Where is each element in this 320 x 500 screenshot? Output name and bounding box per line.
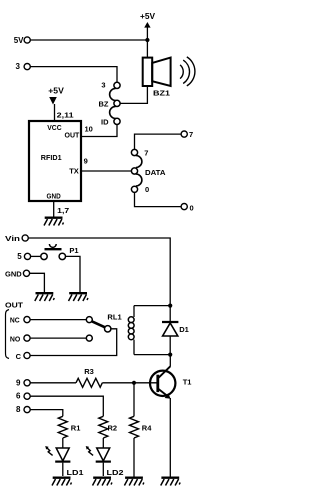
wire TX to DATA	[81, 170, 131, 172]
svg-text:VCC: VCC	[47, 123, 62, 132]
svg-text:10: 10	[85, 124, 93, 133]
terminal C	[16, 352, 30, 361]
wire coil bottom	[134, 354, 170, 356]
svg-text:D1: D1	[179, 325, 189, 334]
svg-text:LD2: LD2	[107, 468, 124, 477]
svg-text:7: 7	[144, 148, 148, 157]
svg-text:+5V: +5V	[48, 87, 64, 96]
terminal 5	[17, 252, 30, 261]
jumper contact 3	[101, 81, 120, 90]
svg-text:RFID1: RFID1	[41, 153, 62, 162]
svg-text:LD1: LD1	[67, 468, 84, 477]
wire 6 to R2	[30, 396, 103, 416]
svg-text:9: 9	[84, 157, 88, 166]
wire 9 to R3	[30, 382, 76, 384]
wire Vin to coil/diode	[28, 238, 170, 306]
svg-text:R3: R3	[84, 367, 94, 376]
wire coil top	[134, 305, 170, 307]
jumper arc DATA-0	[136, 174, 142, 186]
svg-text:C: C	[16, 352, 22, 361]
ground T1 emitter	[161, 478, 181, 486]
relay pivot	[105, 326, 111, 332]
svg-text:BZ: BZ	[99, 99, 109, 108]
svg-text:TX: TX	[69, 167, 79, 176]
wire R1 to LD1	[62, 438, 64, 448]
wire NC	[30, 319, 86, 321]
wire ID to OUT pin 10	[81, 125, 117, 137]
wire R4 to ground	[133, 438, 135, 477]
node coil/diode/collector	[168, 353, 172, 357]
svg-text:3: 3	[16, 62, 21, 71]
svg-text:R4: R4	[142, 423, 152, 432]
wire GND pin	[53, 201, 55, 217]
terminal NC	[10, 315, 30, 324]
jumper contact 0	[131, 185, 149, 194]
svg-text:8: 8	[16, 405, 21, 414]
wire 0 out	[135, 192, 182, 206]
wire GND to ground	[30, 273, 45, 292]
svg-text:2,11: 2,11	[57, 110, 74, 119]
node Vin/coil/diode	[168, 304, 172, 308]
ground LD1	[52, 478, 72, 486]
jumper arc BZ-ID	[110, 106, 116, 118]
wire 7 out	[135, 134, 182, 149]
svg-text:T1: T1	[183, 377, 192, 386]
terminal GND	[5, 270, 30, 279]
resistor R4	[130, 416, 153, 438]
LED LD2	[86, 446, 124, 477]
relay arm	[92, 321, 105, 327]
ground P1	[69, 293, 89, 301]
svg-text:Vin: Vin	[5, 234, 21, 243]
wire NO	[30, 337, 86, 339]
svg-text:+5V: +5V	[140, 12, 156, 21]
terminal 5V	[14, 36, 31, 45]
wire 5 to P1	[31, 255, 41, 257]
+5V supply arrow IC	[48, 87, 64, 122]
svg-text:0: 0	[145, 185, 149, 194]
svg-text:5V: 5V	[14, 36, 24, 45]
jumper contact BZ	[99, 99, 121, 108]
wire P1 to ground	[66, 256, 81, 292]
svg-text:OUT: OUT	[5, 300, 23, 309]
node base/R4	[132, 381, 136, 385]
wire R2 to LD2	[102, 438, 104, 448]
svg-text:6: 6	[16, 392, 21, 401]
svg-text:NO: NO	[10, 334, 21, 343]
svg-text:9: 9	[16, 378, 21, 387]
terminal 8	[16, 405, 30, 414]
relay contact NC	[86, 317, 92, 323]
terminal 7	[181, 130, 193, 139]
ground LD2	[93, 478, 113, 486]
ground GND terminal	[35, 293, 55, 301]
svg-text:GND: GND	[47, 192, 62, 201]
terminal NO	[10, 334, 30, 343]
transistor T1	[150, 355, 191, 477]
svg-text:1,7: 1,7	[57, 206, 69, 215]
resistor R2	[99, 416, 117, 438]
svg-text:3: 3	[101, 81, 105, 90]
svg-text:5: 5	[17, 252, 22, 261]
wire 8 to R1	[30, 410, 63, 417]
svg-text:P1: P1	[69, 246, 78, 255]
bracket OUT	[6, 310, 10, 359]
svg-text:ID: ID	[101, 117, 109, 126]
svg-text:R1: R1	[71, 423, 81, 432]
wire 5V to +5V node	[30, 39, 147, 41]
svg-text:GND: GND	[5, 270, 22, 279]
wire R4 drop	[133, 383, 135, 417]
resistor R1	[58, 416, 80, 438]
svg-text:DATA: DATA	[145, 168, 166, 177]
jumper contact 7	[131, 148, 148, 157]
jumper contact ID	[101, 117, 120, 126]
IC RFID1	[29, 121, 81, 201]
wire buzzer bottom to BZ contact	[120, 86, 147, 103]
jumper contact DATA	[131, 168, 166, 177]
svg-text:NC: NC	[10, 315, 20, 324]
diode D1	[162, 306, 189, 355]
jumper arc 3-BZ	[110, 88, 116, 100]
jumper arc 7-DATA	[136, 156, 142, 168]
terminal 3	[16, 62, 31, 71]
svg-text:RL1: RL1	[107, 312, 121, 321]
relay contact NO	[86, 335, 92, 341]
node 5V junction	[145, 38, 149, 42]
terminal 6	[16, 392, 30, 401]
terminal 0	[181, 204, 194, 213]
ground R4	[124, 478, 143, 486]
+5V supply arrow top	[140, 12, 156, 58]
resistor R3	[76, 367, 102, 387]
LED LD1	[45, 446, 83, 477]
svg-text:0: 0	[190, 204, 194, 213]
buzzer BZ1	[143, 57, 195, 98]
ground IC	[44, 218, 64, 226]
svg-text:7: 7	[189, 130, 193, 139]
wire 3 to jumper	[30, 67, 117, 83]
svg-text:R2: R2	[108, 423, 118, 432]
svg-text:BZ1: BZ1	[153, 89, 170, 98]
svg-text:OUT: OUT	[65, 131, 80, 140]
wire R3 to base	[102, 382, 156, 384]
pushbutton P1	[41, 244, 79, 260]
relay coil RL1	[128, 306, 134, 355]
wire C to pivot	[30, 329, 117, 356]
terminal Vin	[5, 234, 28, 243]
terminal 9	[16, 378, 30, 387]
